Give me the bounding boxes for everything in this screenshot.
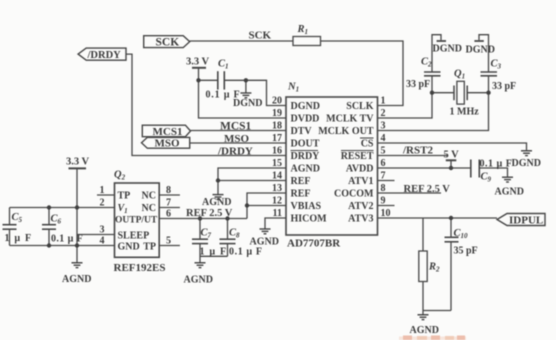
svg-text:AGND: AGND (410, 325, 439, 336)
ground AGND at C9 (502, 177, 513, 182)
wire pin10 ATV3 to IDPUL (378, 217, 498, 219)
svg-text:MCS1: MCS1 (153, 126, 183, 138)
capacitor C10 (450, 218, 452, 237)
svg-text:GND: GND (118, 242, 140, 253)
svg-text:0.1 µ F: 0.1 µ F (206, 90, 241, 101)
capacitor C3 (488, 76, 490, 93)
ground DGND at pin4 (521, 151, 532, 156)
svg-text:1: 1 (381, 96, 386, 107)
svg-text:5: 5 (381, 146, 386, 157)
node junction dots (47, 78, 491, 248)
overline CS pin4 (360, 137, 374, 139)
svg-text:C8: C8 (229, 228, 240, 240)
wire pin12 VBIAS (247, 205, 286, 207)
svg-text:3.3 V: 3.3 V (66, 157, 90, 168)
svg-text:AGND: AGND (202, 197, 231, 208)
svg-text:15: 15 (272, 158, 282, 169)
svg-text:SCLK: SCLK (346, 101, 373, 112)
svg-text:DGND: DGND (433, 44, 462, 55)
svg-text:8: 8 (166, 185, 171, 196)
wire pin18 DTV from MCS1 tag (191, 130, 287, 132)
svg-text:REF192ES: REF192ES (114, 262, 166, 274)
svg-text:6: 6 (381, 158, 386, 169)
signal tag SCK (144, 36, 190, 48)
svg-text:C5: C5 (12, 212, 23, 224)
svg-text:C10: C10 (454, 228, 469, 240)
svg-text:5: 5 (166, 236, 171, 247)
svg-text:/DRDY: /DRDY (217, 145, 253, 157)
svg-text:NC: NC (142, 203, 156, 214)
svg-text:CS: CS (361, 139, 374, 150)
svg-text:RESET: RESET (341, 151, 374, 162)
svg-text:DTV: DTV (291, 126, 313, 137)
svg-text:9: 9 (381, 196, 386, 207)
svg-text:NC: NC (142, 191, 156, 202)
ground AGND at C5 C6 (72, 263, 83, 268)
svg-text:C7: C7 (201, 228, 212, 240)
svg-text:MSO: MSO (224, 133, 250, 145)
svg-text:N1: N1 (287, 82, 299, 94)
svg-text:C6: C6 (51, 214, 62, 226)
svg-text:C9: C9 (481, 172, 492, 184)
svg-text:AVDD: AVDD (346, 164, 374, 175)
wire 3.3V rail top (C5 C6 to REF192 pin2) (10, 207, 115, 209)
svg-text:AGND: AGND (184, 275, 213, 286)
power 3.3V left (69, 167, 87, 169)
svg-text:/RST2: /RST2 (402, 144, 433, 156)
capacitor C6 (48, 208, 50, 225)
wire R1 to SCK tag (190, 40, 293, 42)
svg-text:TP: TP (143, 242, 156, 253)
ground AGND at pin11 (260, 229, 271, 234)
svg-text:AD7707BR: AD7707BR (287, 238, 341, 250)
svg-text:20: 20 (272, 96, 282, 107)
svg-text:18: 18 (272, 121, 282, 132)
svg-text:IDPUL: IDPUL (509, 215, 543, 227)
svg-text:1 µ F: 1 µ F (200, 247, 228, 258)
svg-text:6: 6 (166, 209, 171, 220)
svg-text:14: 14 (272, 171, 282, 182)
svg-text:13: 13 (272, 183, 282, 194)
svg-text:DRDY: DRDY (291, 151, 321, 162)
AD7707 pin names right (318, 101, 374, 225)
svg-text:SCK: SCK (156, 37, 180, 49)
svg-text:33 pF: 33 pF (406, 79, 430, 90)
wire REF192 pin6 OUTPUT REF2.5V rail (159, 218, 247, 220)
svg-text:MCS1: MCS1 (220, 120, 252, 132)
svg-text:19: 19 (272, 108, 282, 119)
svg-text:MSO: MSO (155, 138, 181, 150)
svg-text:SLEEP: SLEEP (118, 231, 150, 242)
transistor Q2: REF192ES IC body (115, 183, 160, 257)
svg-text:HICOM: HICOM (291, 214, 328, 225)
wire REF192 pin5 TP stub (159, 245, 180, 247)
crystal Q1 (432, 92, 454, 94)
wire pin19 DVDD from 3.3V (199, 80, 287, 118)
svg-text:10: 10 (381, 208, 391, 219)
svg-text:REF 2.5 V: REF 2.5 V (404, 184, 451, 195)
svg-text:1 MHz: 1 MHz (450, 107, 480, 118)
watermark fragment bottom (399, 336, 466, 340)
svg-text:DGND: DGND (466, 45, 495, 56)
ground DGND at C1 (240, 93, 251, 98)
resistor R2 (422, 218, 424, 251)
svg-text:2: 2 (100, 198, 105, 209)
wire pin17 DOUT from MSO tag (190, 142, 286, 144)
svg-text:C1: C1 (218, 59, 229, 71)
svg-text:DOUT: DOUT (291, 139, 320, 150)
AD7707 pin numbers left 20-11 (272, 96, 282, 220)
svg-text:REF: REF (291, 176, 311, 187)
wire C7 C8 bottom join (200, 255, 228, 257)
svg-text:16: 16 (272, 146, 282, 157)
svg-text:COCOM: COCOM (334, 189, 374, 200)
wire pin7 ATV1 stub (378, 180, 395, 182)
resistor R1 body (293, 37, 321, 46)
wire R2/C10 bottom join (423, 310, 451, 312)
svg-text:3: 3 (381, 121, 386, 132)
wire REF192 pin8 NC stub (159, 194, 180, 196)
svg-text:2: 2 (381, 108, 386, 119)
svg-text:35 pF: 35 pF (454, 246, 478, 257)
AD7707 pin numbers right 1-10 (381, 96, 391, 220)
svg-text:MCLK TV: MCLK TV (326, 114, 374, 125)
svg-text:33 pF: 33 pF (492, 81, 516, 92)
wire pin13 REF to REF2.5V rail (247, 193, 286, 219)
svg-text:17: 17 (272, 133, 282, 144)
svg-text:8: 8 (381, 183, 386, 194)
svg-text:VBIAS: VBIAS (291, 201, 322, 212)
capacitor C2 (431, 76, 433, 93)
signal tag MSO (142, 137, 190, 148)
ground AGND at C7 C8 (195, 263, 206, 268)
signal tag MCS1 (142, 125, 190, 137)
svg-text:ATV2: ATV2 (348, 201, 373, 212)
wire pin14 REF to AGND node (218, 180, 286, 182)
svg-text:AGND: AGND (291, 164, 320, 175)
wire pin15 AGND (218, 168, 286, 195)
wire pin6 AVDD to 5V and C9 (378, 167, 471, 169)
svg-text:1 µ F: 1 µ F (5, 233, 33, 244)
signal tag /DRDY (78, 48, 126, 60)
wire pin4 CS to DGND (378, 143, 527, 150)
overline DRDY pin16 (291, 150, 319, 152)
svg-text:11: 11 (273, 208, 282, 219)
svg-text:REF 2.5 V: REF 2.5 V (186, 208, 233, 219)
svg-text:C2: C2 (421, 57, 432, 69)
svg-text:/DRDY: /DRDY (87, 50, 122, 61)
svg-text:4: 4 (381, 133, 386, 144)
AD7707 pin names left (291, 101, 328, 225)
svg-text:3.3 V: 3.3 V (186, 57, 210, 68)
svg-text:SCK: SCK (249, 30, 272, 42)
svg-text:Q2: Q2 (114, 170, 126, 182)
svg-text:TP: TP (118, 191, 131, 202)
svg-text:7: 7 (166, 198, 171, 209)
svg-text:ATV1: ATV1 (348, 176, 373, 187)
svg-text:R1: R1 (297, 24, 309, 36)
capacitor C8 (227, 219, 229, 240)
svg-text:4: 4 (100, 236, 105, 247)
capacitor C9 (470, 160, 472, 178)
svg-text:1: 1 (100, 185, 105, 196)
svg-text:0.1 µ F: 0.1 µ F (480, 159, 513, 170)
capacitor C5 (9, 208, 11, 225)
wire pin11 HICOM to AGND (265, 218, 286, 229)
wire pin20 DGND stub (246, 80, 286, 105)
wire pin9 ATV2 stub (378, 205, 395, 207)
REF192 pin names (115, 191, 158, 253)
power 5V (446, 159, 457, 161)
svg-text:AGND: AGND (62, 274, 91, 285)
wire pin8 COCOM REF2.5V (378, 192, 442, 194)
wire pin5 RESET /RST2 (378, 155, 449, 157)
overline RESET pin5 (341, 150, 374, 152)
wire pin1 SCLK to R1 (321, 41, 404, 106)
signal tag IDPUL (497, 214, 545, 226)
ground AGND at pins 15 14 (213, 195, 224, 200)
wire pin16 DRDY from /DRDY tag (126, 54, 287, 155)
svg-text:5 V: 5 V (444, 150, 460, 161)
capacitor C7 (199, 219, 201, 240)
wire REF192 pin1 TP stub (97, 194, 115, 196)
svg-text:AGND: AGND (495, 187, 524, 198)
svg-text:MCLK OUT: MCLK OUT (318, 126, 374, 137)
ground AGND at R2 C10 (418, 315, 429, 320)
wire pin3 MCLK OUT to crystal (378, 93, 489, 131)
op-amp U1: AD7707BR IC body N1 (286, 97, 378, 235)
wire REF192 pin3 SLEEP (77, 234, 115, 236)
svg-text:C3: C3 (491, 59, 502, 71)
wire pin2 MCLK TV to crystal (378, 93, 433, 118)
svg-text:0.1 µ F: 0.1 µ F (229, 247, 263, 258)
svg-text:0.1 µ F: 0.1 µ F (51, 234, 83, 245)
capacitor C1 (199, 79, 218, 81)
svg-text:DGND: DGND (512, 158, 541, 169)
wire AGND rail bottom (C5 C6 to REF192 pin4) (10, 245, 115, 247)
svg-text:OUTP/UT: OUTP/UT (115, 216, 158, 226)
power 3.3V top (192, 67, 206, 69)
svg-text:DVDD: DVDD (291, 114, 320, 125)
svg-text:3: 3 (100, 225, 105, 236)
svg-text:R2: R2 (428, 262, 440, 274)
svg-text:REF: REF (291, 189, 311, 200)
REF192 pin numbers (100, 185, 105, 247)
svg-text:Q1: Q1 (454, 69, 465, 81)
svg-text:12: 12 (272, 196, 282, 207)
svg-text:V1: V1 (118, 203, 128, 215)
svg-text:ATV3: ATV3 (348, 214, 373, 225)
wire REF192 pin7 NC stub (159, 207, 180, 209)
svg-text:DGND: DGND (291, 101, 320, 112)
svg-text:7: 7 (381, 171, 386, 182)
